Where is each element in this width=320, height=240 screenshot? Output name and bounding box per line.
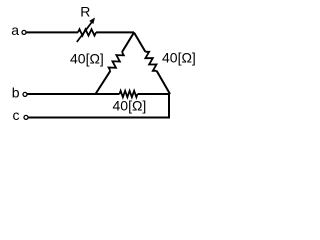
svg-text:b: b [12, 84, 20, 100]
svg-text:a: a [11, 22, 19, 38]
resistor R wiper arrow [77, 18, 95, 43]
triangle left edge lower wire [96, 71, 111, 94]
wire bottom resistor to right corner [138, 93, 171, 95]
svg-text:40[Ω]: 40[Ω] [162, 50, 196, 66]
terminal c [24, 115, 28, 119]
resistor 40ohm left (zigzag) [108, 50, 125, 72]
svg-text:40[Ω]: 40[Ω] [70, 50, 104, 66]
terminal b [23, 92, 27, 96]
wire R to apex [96, 31, 134, 33]
resistor R zigzag [78, 29, 96, 35]
wire right vertical [168, 93, 170, 118]
terminal a [22, 30, 26, 34]
svg-text:R: R [80, 3, 90, 19]
svg-text:40[Ω]: 40[Ω] [113, 97, 147, 113]
resistor 40ohm right (zigzag) [143, 50, 160, 72]
resistor 40ohm bottom (zigzag) [120, 91, 138, 97]
wire b to bottom resistor [28, 93, 120, 95]
triangle left edge upper wire [122, 33, 134, 53]
wire c [29, 117, 171, 119]
triangle right edge upper wire [134, 33, 145, 52]
wire a to R [27, 31, 79, 33]
triangle right edge lower wire [157, 71, 170, 94]
svg-text:c: c [13, 107, 20, 123]
